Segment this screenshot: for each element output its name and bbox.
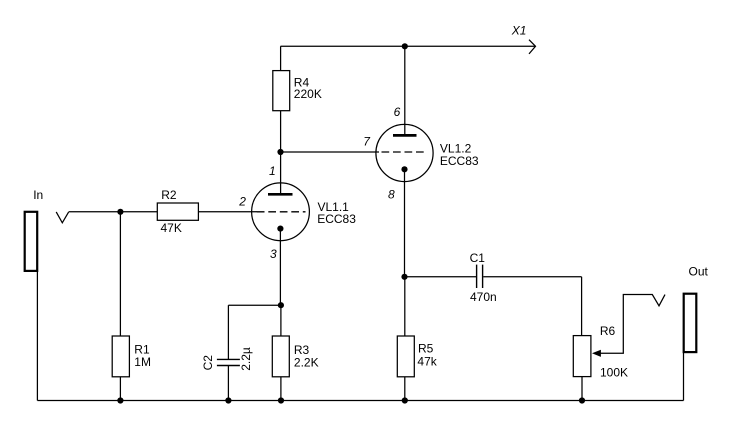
svg-text:6: 6 [394,105,401,119]
svg-text:220K: 220K [294,87,322,101]
svg-text:47K: 47K [161,221,182,235]
svg-text:1M: 1M [134,355,151,369]
svg-text:47k: 47k [417,354,437,368]
svg-text:2.2µ: 2.2µ [239,347,253,371]
svg-text:1: 1 [269,164,276,178]
svg-text:100K: 100K [600,366,628,380]
svg-text:In: In [33,188,43,202]
svg-text:470n: 470n [470,290,497,304]
svg-text:ECC83: ECC83 [440,154,479,168]
svg-text:2.2K: 2.2K [294,355,319,369]
svg-text:7: 7 [363,135,371,149]
svg-text:C1: C1 [470,251,486,265]
svg-text:R2: R2 [161,188,177,202]
svg-text:Out: Out [689,265,709,279]
svg-text:3: 3 [270,247,277,261]
svg-text:ECC83: ECC83 [317,212,356,226]
svg-text:8: 8 [388,188,395,202]
svg-text:C2: C2 [201,355,215,371]
svg-text:2: 2 [238,195,246,209]
svg-text:X1: X1 [511,24,527,38]
svg-text:R6: R6 [600,324,616,338]
